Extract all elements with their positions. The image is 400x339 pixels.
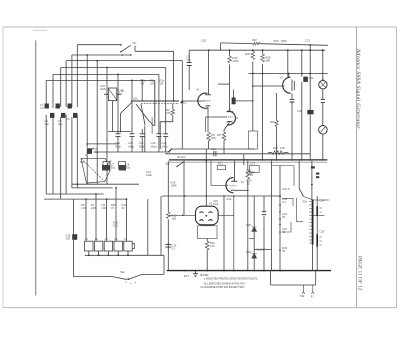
wire drop x97 [96,61,98,185]
capacitor C32 electrolytic dark [303,77,308,82]
wire bus line 2 [72,54,131,56]
wire drop x158 [158,74,160,133]
svg-text:0.01: 0.01 [213,202,219,206]
svg-text:1K: 1K [282,249,285,253]
svg-text:22K: 22K [211,136,216,140]
wire drop x310 [309,45,311,74]
capacitor C15 [165,245,171,248]
svg-text:25: 25 [282,215,285,219]
resistor R11 box on earth bus [217,165,225,169]
capacitor C25 electrolytic [262,212,267,215]
wire link y194 [46,193,103,195]
svg-text:ELECT: ELECT [257,248,266,252]
wire bus drop F [45,80,47,107]
valve V2 cathode hook [227,121,233,124]
svg-text:V1: V1 [196,88,200,92]
wire link A y51 [135,50,174,52]
wire earth bus lower thin [169,161,327,163]
svg-text:R30: R30 [270,120,275,124]
svg-text:R27: R27 [252,38,257,42]
svg-text:470: 470 [210,244,215,248]
inductor L1 box [85,241,93,251]
svg-text:15K: 15K [280,146,285,150]
svg-text:C34: C34 [320,199,325,203]
wire V4 grid feed left [211,161,228,186]
wire x276 down with resistor R30 [276,93,278,121]
wire x184 drop [183,161,185,216]
wire HT2 rail [249,73,328,75]
wire V3 anode top [288,74,290,78]
inductor L2 box [94,241,102,251]
svg-text:0.1: 0.1 [282,200,286,204]
svg-text:S2e: S2e [165,162,170,166]
svg-text:30p: 30p [111,166,116,170]
wire x168 full drop [167,161,169,271]
variable capacitor C4c [140,134,145,137]
svg-text:C32: C32 [309,76,314,80]
svg-text:V3: V3 [280,76,284,80]
wire x271 drop [271,161,273,271]
wire bank feed 1 [85,199,87,241]
wire x252 section down [252,74,254,132]
wire drop x165 [165,68,167,134]
wire bank feed 5 [125,199,127,241]
variable capacitor C4d [156,134,161,137]
resistor R3 box [119,162,126,170]
wire bus tail A [76,115,78,188]
terminal stub OUT1 [302,285,305,294]
svg-text:R19: R19 [227,197,232,201]
svg-text:R8: R8 [217,133,221,137]
wire bus line 5 [53,73,159,75]
wire x310 mid down [309,74,311,161]
svg-text:EXT: EXT [184,274,189,278]
svg-text:C7: C7 [183,101,187,105]
wire XL drop [111,101,113,132]
svg-text:1.5: 1.5 [40,106,44,110]
wire link y249 [254,249,271,251]
wire bus drop E [52,74,54,108]
capacitor C33 [321,99,325,102]
svg-text:100K: 100K [247,172,253,176]
wire stub linking rails x220 [220,43,222,50]
svg-text:30p: 30p [94,150,99,154]
valve V2 grid dashes [226,116,233,118]
capacitor C18 dark blob [72,234,77,240]
svg-text:ALL SWITCHES SHOWN IN THE ANTI: ALL SWITCHES SHOWN IN THE ANTI- [204,282,246,285]
wire x147 drop [147,199,149,255]
wire bus drop A [76,45,78,107]
page frame top border [3,26,397,28]
variable capacitor C4a [116,134,121,137]
switch S1b wafer fan [136,104,149,121]
wire bus drop D [60,68,62,108]
switch S4b arm [299,189,303,197]
wire rail jog [168,149,173,153]
junction dots on HT rails [208,44,324,51]
svg-text:C17: C17 [250,162,255,166]
resistor R14 [246,170,250,179]
wire S5 rung right 2 [314,215,325,217]
wire V3 cathode down with capacitor C23 [291,94,293,161]
svg-text:● INDICATES PRINTED CIRCUIT BO: ● INDICATES PRINTED CIRCUIT BOARD EYELET… [204,278,258,281]
wire bank boxes to common [89,251,128,255]
resistor R27 in series with HT rail [253,42,261,44]
node junction on dark bus [173,100,175,102]
svg-text:C10: C10 [211,147,216,151]
wire anode jog [218,83,230,85]
svg-text:150: 150 [172,217,177,221]
trimmer capacitor C15a dark [119,165,126,171]
svg-text:PAGE 11 OF 12: PAGE 11 OF 12 [357,256,362,291]
wire drop x172 [173,51,175,101]
wire x280 drop [279,166,281,271]
svg-text:C20: C20 [282,187,287,191]
valve V1 anode bar [205,92,211,95]
wire V5 grid line right [218,214,233,216]
wire x301 down [302,74,306,161]
wire output link below earth [271,271,316,285]
wire HT rail top left segment [77,44,121,46]
wire V4 anode top [233,161,235,178]
wire x243 crossing [243,154,245,165]
wire x299 drop [298,161,300,189]
wire HT2 lower rail y50 [189,49,325,51]
trimmer capacitor C13 dark [102,165,110,171]
wire drop to C4b [131,80,133,133]
wire V1 cathode down [207,106,209,132]
resistor R15 [167,212,171,219]
svg-text:C30: C30 [297,109,302,113]
ground symbol E [193,271,198,277]
resistor R6 below V1 [207,132,211,141]
wire link y238 [249,238,254,240]
svg-text:22: 22 [122,206,125,210]
wire drop x252 [252,50,254,73]
capacitor C35 bar [316,234,318,247]
variable capacitor C4b [130,134,135,137]
svg-text:C5: C5 [66,117,70,121]
wire bus tail D [60,117,62,199]
wire dashed coupling line [141,103,179,105]
capacitor C34 bar [316,206,318,216]
wire wafer hub drop 2 [151,117,153,134]
wire C11 link right [236,100,253,102]
svg-text:S1b: S1b [133,97,138,101]
wire drop to C4a [117,74,119,133]
svg-text:S5c: S5c [303,200,308,204]
wire HT rail top right segment [221,43,328,45]
resistor R20 on drop x229 [229,50,231,111]
screen box [249,131,258,149]
junction dots on section rail [184,195,235,197]
inductor L4 box [114,241,122,251]
valve V5 electrodes [200,212,213,221]
svg-text:L3: L3 [105,237,108,241]
wire V4 cathode right [236,189,248,191]
valve V5 envelope [196,206,219,225]
capacitor C30 dark blob [307,110,313,114]
svg-text:S3a: S3a [120,270,125,274]
wire x161 drop [160,196,162,255]
trimmer capacitor C3a [68,104,72,109]
trimmer capacitor C2b [61,113,65,118]
svg-text:30p: 30p [58,122,63,126]
svg-text:L1: L1 [85,237,88,241]
svg-text:40 kc/s: 40 kc/s [177,155,186,159]
wire link y199 [44,198,126,200]
valve V4 grid dashes [230,185,237,187]
wire bus line 4 [61,67,166,69]
svg-text:250p: 250p [162,144,168,148]
trimmer capacitor C1b [50,113,54,118]
resistor R16 below V5 [206,238,208,241]
svg-text:S2a: S2a [80,160,85,164]
switch S3a position dots [126,282,136,284]
svg-text:3.3K: 3.3K [81,206,87,210]
wire x311 upper with rectifier marks [311,161,313,200]
wire oscillator link y144 [87,143,118,145]
wire meter to earth bus [322,134,324,161]
svg-text:NC: NC [133,41,137,45]
inductor L5 box [124,241,132,251]
svg-text:47K: 47K [166,111,171,115]
wire mid rail right lower [165,153,310,155]
wire S5 rung right 1 [314,199,330,201]
wire C11 stub [233,90,235,98]
wire bank feed 4 [115,188,117,241]
svg-text:100: 100 [113,224,118,228]
junction dots bank bottom [88,254,129,256]
resistor R8 below V2 [222,132,226,141]
wire bus tail E [52,115,54,194]
junction dots on HT2 rail [252,73,311,75]
junction dots on bottom earth bus [184,270,311,272]
capacitor C10 [214,151,216,156]
node junction star [180,101,182,103]
svg-text:30p: 30p [126,166,131,170]
resistor R2 on x172 [172,104,174,110]
resistor R28 on drop x262 [261,54,265,62]
svg-text:100K: 100K [171,184,177,188]
wire bank feed 2 [95,194,97,241]
wire bus tail F [45,115,47,194]
wire x224 drop [223,196,225,271]
wire ladder left rail [297,198,304,222]
resistor R26 on drop x252 [251,52,255,60]
wire x247 drop [247,161,249,170]
svg-text:100K: 100K [281,39,287,43]
wire S3 feed left [73,199,128,279]
wire drop x182 [181,61,183,149]
wire arm to bar link [304,197,313,200]
wire drop x262 [262,50,264,73]
svg-text:68K: 68K [266,59,271,63]
svg-text:V4: V4 [241,180,245,184]
svg-text:R26: R26 [245,52,250,56]
valve V4 cathode hook [231,189,237,192]
svg-text:250p: 250p [151,144,157,148]
wire bus tail B [71,117,73,188]
svg-text:V2: V2 [235,116,239,120]
page frame left border [2,27,4,308]
wire drop x301 [301,50,303,73]
valve V3 electrodes [292,80,294,92]
trimmer capacitor C8 [103,162,110,170]
wire drop x287 [287,50,289,76]
wire mid rail left [95,151,170,153]
svg-text:MR2: MR2 [246,250,252,254]
wire drop x154 dark to wafer hub [154,80,156,126]
wire section rail y196 [162,195,281,197]
switch S5c wafer bar [312,200,314,245]
capacitor C11 dark blob [232,98,236,105]
wire bus line 3 [66,60,182,62]
inductor L3 box [104,241,112,251]
svg-text:XL: XL [121,89,125,93]
wire oscillator top bus dark [131,100,179,102]
svg-text:L2: L2 [95,237,98,241]
svg-text:Advance S66A Signal Generator: Advance S66A Signal Generator [355,48,361,130]
svg-text:NOTE:: NOTE: [200,273,209,277]
wire x264 drop [263,196,265,271]
wire V2 cathode down [224,122,230,130]
switch S2e arm on earth bus [177,161,185,166]
crystal XL1 box [108,88,116,101]
valve V1 cathode hook [206,105,211,108]
wire x209 crossing rails [205,149,207,196]
svg-text:R25: R25 [274,39,279,43]
svg-text:25: 25 [247,182,250,186]
trimmer capacitor C6 [87,148,92,154]
junction dots on bus lines [86,54,143,81]
wire drop to C6 trimmer [86,55,88,184]
valve V1 envelope [198,93,208,108]
valve V2 envelope [227,111,236,125]
bracket link lower [282,222,291,232]
pilot lamp LP1 [319,81,327,89]
valve V5 base box [197,226,217,239]
page frame right border [396,27,398,308]
variable capacitor C4e [163,134,168,137]
wire bus tail C [65,115,67,194]
wire bank common to earth rail [163,255,165,274]
wire ladder rung top [272,166,295,187]
wire gang link y131 [108,131,131,133]
svg-text:R22: R22 [273,146,278,150]
margin separator rule [356,27,358,308]
wire V2 grid feed left [206,117,226,132]
wire wafer hub drop 1 [144,126,146,153]
wire drop x107 [106,68,108,185]
diode MR2 [252,254,257,258]
wire bus line 6 [46,79,155,81]
capacitor C34 side ticks [319,208,322,245]
wire V5 anode to rail [205,196,207,206]
svg-text:S5d: S5d [300,295,305,298]
svg-text:100: 100 [66,237,71,241]
valve V4 anode bar [231,178,237,181]
svg-text:100: 100 [102,206,107,210]
svg-text:220: 220 [91,206,96,210]
svg-text:30p: 30p [45,122,50,126]
junction dots on link lines [76,183,127,200]
terminal stub OUT2 [311,285,314,294]
svg-text:1000: 1000 [100,87,106,91]
svg-text:MR1: MR1 [246,223,252,227]
diode MR1 [252,227,257,231]
wire x317 drop [316,196,318,271]
bracket link upper [282,198,293,206]
wire S5 stem down [310,245,312,271]
scan smudge top left [33,30,47,32]
wire V1 grid feed left [182,100,204,102]
svg-text:L5: L5 [124,237,127,241]
wire wafer left spoke [120,102,132,132]
svg-text:30: 30 [282,230,285,234]
wire screening bus left vertical [35,40,37,295]
wire drop x142 [141,80,143,101]
wire lamp to capacitor C33 [322,89,324,125]
wire link y188 [72,187,113,189]
trimmer capacitor C3b [73,113,77,118]
resistor R22 horizontal [272,151,284,155]
svg-text:100p: 100p [146,173,152,177]
wire V4 below [233,196,235,271]
meter M1 [319,126,328,135]
wire x254 drop [253,196,255,271]
svg-text:C35: C35 [320,230,325,234]
wire drop x322 to lamp [322,50,324,80]
inductor L5 slug tab [132,244,134,249]
valve V2 anode bar [227,108,234,112]
wire drop x208 to V1 anode [208,50,210,92]
wire link y184 [72,183,139,185]
page frame bottom border [3,307,397,309]
wire V5 grid line left [168,214,195,216]
wire x262 section down [262,74,264,161]
trimmer capacitor C1a [45,104,49,109]
svg-text:L4: L4 [114,237,117,241]
svg-text:R11: R11 [218,162,223,166]
valve V1 grid dashes [205,100,212,102]
switch S2a wafer sector [81,158,105,181]
svg-text:50p: 50p [187,58,192,62]
switch S1c [121,45,131,51]
wire bus drop C [65,61,67,107]
svg-text:CLOCKWISE POSITION EXCEPT S5C.: CLOCKWISE POSITION EXCEPT S5C. [201,286,246,289]
wire earth bus dark mid [169,159,327,161]
svg-text:250p: 250p [115,144,121,148]
junction dots on x280 [279,196,281,251]
svg-text:220K: 220K [233,59,239,63]
svg-text:47: 47 [111,206,114,210]
svg-text:250p: 250p [128,144,134,148]
valve V3 envelope [283,77,291,93]
valve V4 envelope [226,178,234,193]
svg-text:0.1: 0.1 [172,247,176,251]
wire bank common bottom [85,254,164,256]
capacitor C17 box [249,165,259,172]
svg-text:C31: C31 [305,39,310,43]
wire bus drop B [71,55,73,107]
svg-text:C29: C29 [201,39,206,43]
earth bus bottom dark [167,270,331,272]
switch S5c contact ticks [309,202,312,244]
wire bank feed 3 [106,199,108,241]
wire mid rail right upper [170,148,254,150]
wire drop x189 with capacitor C9 [188,50,190,90]
